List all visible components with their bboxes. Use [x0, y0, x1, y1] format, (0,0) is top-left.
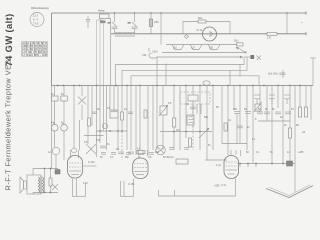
wire [44, 169, 46, 193]
voltage selector S1 [166, 40, 243, 50]
svg-text:Heizw.: Heizw. [98, 10, 105, 13]
svg-text:175: 175 [96, 139, 101, 142]
wire inner loop2 [123, 181, 125, 197]
junction dots [44, 168, 52, 194]
antenna jack [149, 48, 158, 58]
capacitor row C25 [101, 153, 154, 155]
capacitor C5 electrolytic [51, 122, 58, 148]
svg-text:127: 127 [191, 47, 196, 50]
capacitor C11 variable [197, 104, 201, 114]
svg-text:C 11: C 11 [216, 164, 222, 167]
bottom rail [159, 179, 236, 197]
wire: selector output with wiper arrow [157, 47, 246, 86]
capacitor C4 block [61, 86, 68, 125]
tube V4 rectifier UY11 [196, 27, 217, 41]
inductor L2 oscillator coil [107, 107, 118, 118]
svg-text:+B: +B [302, 131, 305, 134]
capacitor C12 [233, 108, 240, 144]
potentiometer hum adjust [203, 81, 210, 85]
scatter labels [168, 102, 256, 147]
svg-text:5n 50p 2n: 5n 50p 2n [163, 156, 174, 159]
title: model name rotated on left edge [4, 13, 15, 190]
capacitor C13 [244, 108, 251, 113]
resistor R8 [224, 123, 227, 131]
wire: right edge drop [310, 58, 316, 86]
resistor R12 [137, 148, 145, 154]
svg-text:R-F-T Fernmeldewerk Treptow VE: R-F-T Fernmeldewerk Treptow VEB [4, 59, 13, 190]
wire: left border vertical [51, 13, 53, 86]
tube V1 cathode loop [73, 179, 86, 197]
svg-text:50p: 50p [125, 156, 130, 159]
output transformer T2 [27, 175, 44, 194]
dashed gang line 2 [192, 104, 194, 150]
capacitor C10 [186, 103, 196, 109]
capacitor C7 [254, 95, 260, 104]
svg-text:170: 170 [267, 37, 272, 40]
capacitor C16 [100, 143, 110, 148]
capacitor C1 trimmer [108, 22, 118, 34]
wire: AVC line [222, 143, 247, 145]
switch S4 [52, 184, 58, 190]
small box on rail [176, 159, 188, 164]
capacitor C24 [128, 112, 133, 114]
svg-text:Gr: Gr [48, 151, 51, 154]
resistor R4 on mains line [267, 32, 277, 39]
chassis arrow [266, 185, 313, 198]
coil L3 adjustable [159, 105, 168, 116]
capacitor C9 [284, 95, 290, 104]
svg-text:40μ: 40μ [51, 122, 56, 125]
capacitor C18 [128, 152, 134, 154]
rectifier loop wire [183, 22, 230, 34]
tube V3 UCH11 [221, 156, 239, 188]
switch S2 [78, 86, 86, 121]
svg-text:U 110 95 - 28: U 110 95 - 28 [22, 53, 48, 57]
svg-text:+205: +205 [298, 151, 304, 154]
node: mains terminals [301, 12, 306, 36]
resistor R6 [173, 118, 176, 127]
svg-text:74 GW (alt): 74 GW (alt) [4, 13, 14, 66]
wire: top mains bus [52, 12, 307, 14]
capacitor C15 [237, 126, 243, 128]
svg-text:+205: +205 [214, 185, 220, 188]
tube V2 cathode loop [121, 179, 134, 197]
capacitor C17 [116, 148, 124, 154]
wire: heater line 2 [122, 57, 247, 86]
wire: vertical from top bus [160, 13, 162, 45]
wire stubs tube tops [71, 150, 241, 158]
tube socket circle [30, 13, 44, 27]
svg-text:7 6 5: 7 6 5 [33, 23, 39, 26]
svg-text:1M: 1M [155, 151, 158, 154]
svg-text:100: 100 [233, 108, 238, 111]
svg-text:U 154: U 154 [128, 183, 135, 186]
svg-text:C14: C14 [142, 54, 147, 57]
wire: second mains line [111, 33, 306, 35]
inductor L1 heater choke [115, 32, 135, 36]
wire: HT return [237, 163, 295, 165]
svg-text:U50: U50 [154, 21, 159, 24]
capacitor C2 trimmer [115, 13, 138, 34]
svg-text:1M: 1M [176, 129, 179, 132]
capacitor C23 [92, 112, 97, 114]
svg-text:Sch 160 x 2: Sch 160 x 2 [268, 73, 281, 76]
capacitor C27 stub [86, 16, 90, 28]
resistor R1 ballast on top bus [98, 10, 109, 19]
wire [294, 164, 296, 193]
junction dots top bus [114, 12, 288, 14]
wire [32, 193, 34, 195]
resistor R15 [144, 110, 147, 118]
resistor R5 [121, 112, 124, 120]
IF transformer T1 [187, 115, 194, 125]
wire: right drop to lower mains line [286, 13, 288, 34]
svg-text:C141: C141 [152, 51, 158, 54]
capacitor C22 disc [102, 123, 107, 128]
resistor R13 [49, 169, 52, 193]
svg-text:UY 11: UY 11 [196, 29, 203, 32]
capacitor C8 [269, 95, 275, 104]
tube V1 output UCL11 [68, 148, 97, 178]
svg-text:U 11: U 11 [221, 184, 227, 187]
resistor R14 [88, 118, 91, 126]
wire [51, 86, 53, 169]
capacitor C28 under box [100, 21, 106, 24]
dashed screen box [180, 92, 210, 104]
wire crossbar [84, 135, 104, 137]
coil L4 with arrow [254, 102, 262, 112]
svg-text:50Ω: 50Ω [198, 17, 203, 20]
svg-text:1 2 3: 1 2 3 [33, 15, 39, 18]
wire: heater tap [239, 65, 241, 76]
junction dots mid [99, 130, 123, 132]
wire: main chassis bus [52, 85, 314, 87]
svg-text:220: 220 [209, 47, 214, 50]
wire: speaker top lead [33, 168, 58, 170]
wire: gang line [97, 130, 128, 132]
PSU filter capacitors [257, 108, 291, 121]
jack J1 circle-X [156, 145, 166, 155]
wire [109, 19, 111, 86]
capacitor C26 [169, 148, 189, 150]
dashed gang coupling line [121, 128, 123, 160]
capacitor C20 [281, 70, 286, 78]
switch S5 mains [244, 55, 261, 60]
wire to mixer grid [205, 159, 227, 161]
wire: midband vertical comb [74, 86, 311, 164]
svg-text:50Ω: 50Ω [234, 40, 239, 43]
tube V2 UBF11 [128, 158, 148, 186]
rectifier Gr disc [48, 147, 60, 168]
svg-text:8 · 4: 8 · 4 [33, 19, 38, 22]
resistor R7 [188, 138, 191, 147]
wire stubs on HT return [240, 164, 256, 168]
capacitor C21 dark block [287, 161, 293, 166]
wire: detector line [160, 131, 212, 133]
wire: vertical triple run [97, 19, 104, 86]
voltage table [22, 42, 48, 57]
junction dots [239, 163, 284, 165]
svg-text:Röhrenfassung: Röhrenfassung [31, 6, 49, 10]
switch S3 [86, 144, 96, 154]
svg-text:110: 110 [173, 47, 177, 50]
resistor R2 series heater [149, 13, 159, 34]
capacitor C6 electrolytic [61, 122, 68, 161]
svg-text:G 134: G 134 [88, 161, 95, 164]
svg-text:50p: 50p [204, 116, 209, 119]
capacitor C19 dark block [55, 170, 60, 175]
wire: heater line 3 [131, 76, 259, 86]
resistor R9 [298, 107, 301, 117]
speaker LS [20, 177, 27, 193]
wire [32, 169, 34, 176]
wires: verticals HT bus to chassis bus [166, 64, 230, 86]
wire: speaker bottom lead [33, 192, 58, 194]
resistor R11 [288, 128, 291, 138]
junction dots on chassis bus [57, 85, 301, 87]
wire: heater line 1 [116, 57, 245, 86]
resistor R10 [304, 107, 307, 117]
capacitor C3 block [51, 86, 58, 125]
resistor R3 shunt [198, 17, 206, 23]
diamond marker [185, 35, 189, 39]
variable arrow tuning [199, 128, 209, 138]
